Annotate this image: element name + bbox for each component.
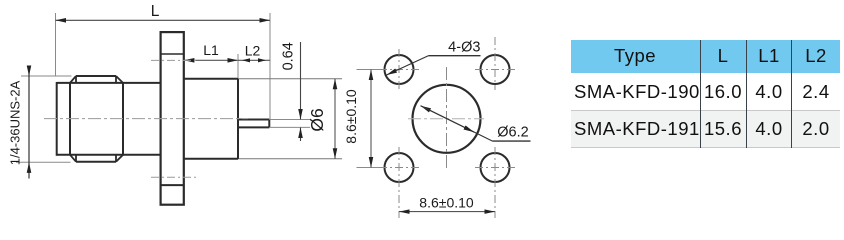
left dimension 8.6±0.10: dimension line with arrows: [370, 70, 372, 168]
left dimension 8.6±0.10: bottom extension line: [357, 167, 380, 169]
center hole Ø6.2: [413, 85, 481, 153]
right cylinder bottom edge + Ø6 extension: [184, 158, 238, 160]
svg-text:8.6±0.10: 8.6±0.10: [343, 89, 359, 144]
main centerline: [44, 118, 248, 120]
mounting hole top-right: [481, 55, 510, 84]
centerline top-right hole vertical: [494, 37, 496, 90]
mounting hole top-left: [385, 55, 414, 84]
rim / hex boundary vertical: [69, 83, 71, 155]
hex right face: [122, 83, 124, 155]
connector body: bottom outline line: [57, 154, 161, 156]
centerline top-left hole horizontal: [379, 69, 421, 71]
dimension L1: line with arrows: [184, 59, 238, 61]
hex nut top edge: [76, 75, 116, 77]
hex chamfer diagonals bottom: [70, 155, 76, 162]
centerline top-left hole vertical: [398, 49, 400, 90]
svg-text:L: L: [151, 3, 160, 20]
svg-text:Ø6.2: Ø6.2: [497, 125, 528, 141]
centerline bottom-right hole vertical (extends to dimension): [494, 147, 496, 218]
dimension Ø6: line with arrows: [334, 79, 336, 159]
row 1: [574, 81, 700, 103]
thread dimension: vertical line with outside arrows: [28, 66, 30, 76]
mounting hole bottom-right: [481, 153, 510, 182]
label Ø6.2: leader underline: [493, 140, 531, 142]
dimension 0.64: bottom extension line: [269, 126, 310, 128]
right cylinder right face: [237, 79, 239, 159]
centerline bottom-right hole horizontal: [475, 167, 517, 169]
spec table: [571, 40, 840, 148]
svg-text:0.64: 0.64: [281, 42, 297, 70]
centerline top-right hole horizontal: [475, 69, 517, 71]
centerline bottom-left hole vertical (extends to dimension): [398, 147, 400, 218]
dimension L: extension line right: [269, 13, 271, 119]
mounting hole bottom-left: [385, 153, 414, 182]
svg-text:8.6±0.10: 8.6±0.10: [419, 195, 474, 211]
dimension L1: right extension line: [237, 54, 239, 78]
flange bottom hole edge line: [161, 184, 184, 186]
solder tab (pin) outline: [238, 119, 269, 121]
flange rectangle: [161, 32, 184, 205]
dimension 0.64: upper arrow segment: [300, 42, 302, 120]
flange top hole edge line: [161, 53, 184, 55]
right cylinder top edge + Ø6 extension: [184, 78, 238, 80]
thread dimension 1/4-36UNS-2A: top extension line: [21, 75, 72, 77]
flange top hole centerline: [151, 59, 196, 61]
header cells: [571, 45, 699, 67]
connector body: top outline line (rim + hex flats + cylinder): [57, 82, 161, 84]
centerline bottom-left hole horizontal: [379, 167, 421, 169]
label Ø6.2: diameter leader line with arrows: [421, 106, 493, 141]
flange bottom hole centerline: [151, 176, 196, 178]
thread dimension 1/4-36UNS-2A: bottom extension line: [16, 161, 71, 163]
dimension 0.64: lower arrow segment: [300, 127, 302, 141]
svg-text:Ø6: Ø6: [307, 108, 327, 131]
center hole horizontal centerline: [408, 118, 484, 120]
svg-text:1/4-36UNS-2A: 1/4-36UNS-2A: [8, 80, 23, 165]
hex chamfer verticals: [75, 76, 77, 83]
dimension 0.64: top extension line: [269, 119, 310, 121]
hex chamfer diagonals top: [70, 76, 76, 83]
hex nut bottom edge: [76, 161, 116, 163]
row 2: [574, 118, 700, 140]
left dimension 8.6±0.10: top extension line: [357, 69, 380, 71]
svg-text:L1: L1: [203, 42, 219, 58]
bottom dimension 8.6±0.10: dimension line with arrows: [399, 211, 495, 213]
connector front rim left face: [56, 82, 58, 156]
label 4-Ø3: leader underline: [428, 55, 480, 57]
svg-text:4-Ø3: 4-Ø3: [448, 40, 480, 56]
center hole vertical centerline: [446, 67, 448, 171]
svg-text:L2: L2: [245, 43, 261, 59]
dimension L2: line with arrows: [238, 59, 270, 61]
dimension L: dimension line with arrows: [56, 19, 271, 21]
dimension L: extension line left: [55, 13, 57, 76]
label 4-Ø3: leader diagonal with arrow: [387, 56, 429, 75]
